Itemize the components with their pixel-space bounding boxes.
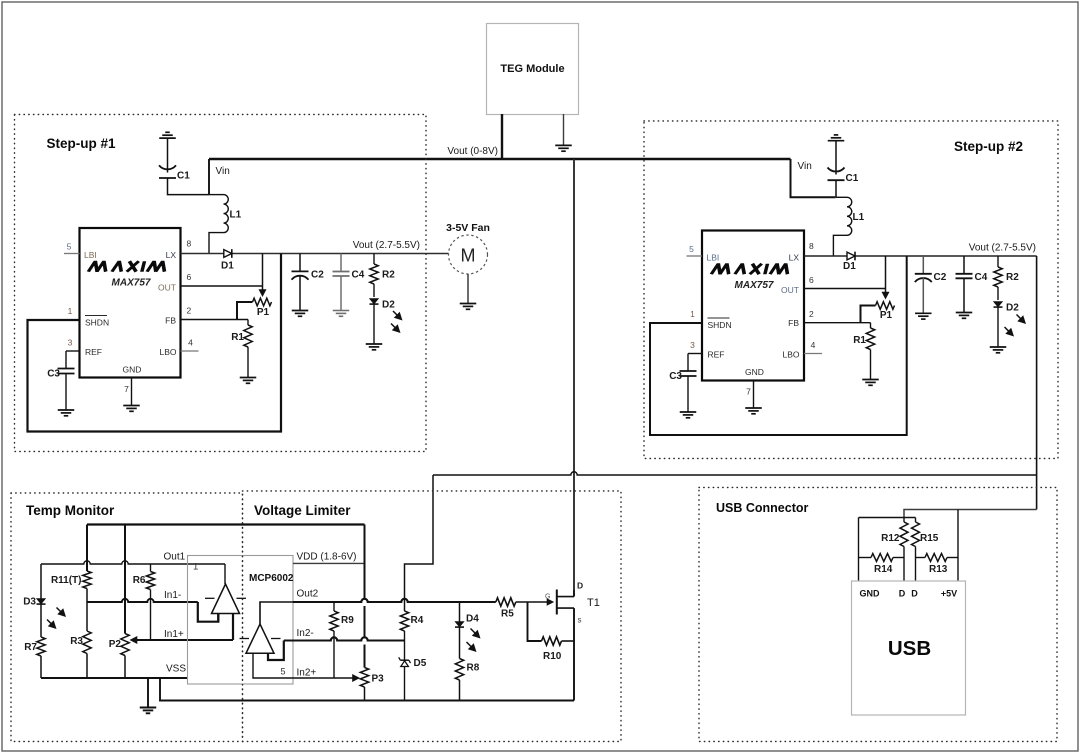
svg-text:FB: FB: [165, 316, 176, 326]
Temp Monitor dotted box: [11, 493, 243, 742]
ground TEG: [555, 145, 572, 151]
svg-text:USB: USB: [888, 637, 931, 660]
svg-text:D4: D4: [466, 614, 479, 625]
wire C1 to L1 junction (step-up #2): [835, 180, 837, 197]
svg-text:5: 5: [280, 667, 285, 677]
pin 4 LBO stub (step-up #2): [804, 340, 822, 354]
wire bus to Vin of step-up #2: [791, 159, 836, 197]
wire Out2 row: [293, 599, 496, 602]
wire Out1 row: [41, 561, 225, 564]
op-amp MCP6002 package box: [188, 556, 294, 685]
potentiometer P3: [360, 668, 384, 688]
svg-text:In2-: In2-: [297, 628, 314, 639]
svg-text:Step-up #1: Step-up #1: [47, 136, 117, 151]
svg-text:In2+: In2+: [297, 668, 317, 679]
svg-text:LBO: LBO: [782, 350, 799, 360]
svg-text:G: G: [545, 594, 550, 601]
svg-text:R6: R6: [133, 575, 146, 586]
wire D5 to bottom rail: [404, 667, 406, 701]
IC U2 MAX757 (step-up #2): [702, 231, 804, 381]
LED D4: [455, 602, 481, 652]
svg-text:R4: R4: [411, 615, 424, 626]
wire R4 bottom to D5: [404, 631, 406, 660]
svg-text:3-5V Fan: 3-5V Fan: [446, 222, 490, 234]
svg-text:M: M: [461, 246, 476, 266]
svg-text:2: 2: [809, 309, 814, 319]
wire Out1 to op-amp A apex: [224, 564, 226, 584]
LED D2 (step-up #2): [994, 302, 1027, 348]
ground R1 (step-up #2): [862, 380, 879, 386]
pin 7 GND stub (step-up #1): [124, 378, 131, 406]
svg-text:1: 1: [68, 306, 73, 316]
ground temp monitor: [140, 708, 157, 714]
wire +5V vertical: [957, 510, 959, 582]
op-amp B triangle: [240, 624, 281, 653]
svg-text:R2: R2: [1006, 272, 1019, 283]
pin 6 label and OUT wire (step-up #1): [181, 272, 263, 286]
wire USB top rail: [859, 517, 916, 519]
capacitor C1 (step-up #1): [159, 165, 190, 181]
transistor T1 MOSFET: [557, 581, 600, 625]
svg-text:LBO: LBO: [159, 347, 176, 357]
svg-text:LBI: LBI: [707, 252, 720, 262]
wire sense drop to R4: [405, 475, 434, 611]
svg-text:C3: C3: [47, 369, 60, 380]
inductor L1 (step-up #2): [847, 197, 865, 235]
ground C4 (step-up #1): [333, 311, 350, 317]
svg-text:1: 1: [690, 309, 695, 319]
wire R3 to bottom rail: [86, 654, 88, 679]
zener diode D5: [399, 657, 427, 669]
svg-text:6: 6: [187, 272, 192, 282]
wire T1 source down: [573, 608, 575, 700]
wire supply into USB network: [904, 510, 1037, 518]
svg-text:D2: D2: [382, 300, 395, 311]
svg-text:LX: LX: [789, 253, 800, 263]
resistor R13: [916, 554, 959, 576]
capacitor C4 (step-up #1): [333, 254, 365, 311]
resistor R15: [912, 518, 939, 547]
svg-text:+5V: +5V: [941, 589, 957, 599]
svg-text:C3: C3: [669, 371, 682, 382]
svg-text:LBI: LBI: [84, 250, 97, 260]
svg-text:R14: R14: [874, 564, 893, 575]
svg-text:D: D: [899, 589, 906, 599]
potentiometer P1 (step-up #2): [876, 302, 895, 321]
ground C3 (step-up #1): [58, 410, 75, 416]
svg-text:Vin: Vin: [216, 166, 230, 177]
resistor R1 (step-up #1): [231, 320, 252, 348]
svg-text:OUT: OUT: [781, 285, 799, 295]
svg-text:3: 3: [690, 340, 695, 350]
resistor R1 (step-up #2): [853, 323, 874, 350]
capacitor C4 (step-up #2): [956, 256, 988, 313]
svg-text:Out1: Out1: [164, 552, 186, 563]
svg-text:Vin: Vin: [798, 161, 812, 172]
wire R1 to ground (step-up #2): [870, 350, 872, 380]
svg-text:D1: D1: [843, 261, 856, 272]
resistor R3: [70, 631, 91, 654]
resistor R8: [455, 659, 479, 681]
capacitor C2 (step-up #2): [915, 256, 947, 313]
capacitor C3 (step-up #1): [47, 351, 74, 410]
svg-text:D5: D5: [414, 658, 427, 669]
svg-text:VDD (1.8-6V): VDD (1.8-6V): [297, 552, 357, 563]
svg-text:GND: GND: [860, 589, 881, 599]
svg-text:In1+: In1+: [164, 629, 184, 640]
TEG Module box: [487, 24, 579, 115]
wire P3 to bottom rail: [364, 687, 366, 701]
wire gate branch to R10: [528, 602, 542, 641]
wire LX row / Vout(2.7-5.5V) rail (step-up #1): [181, 253, 450, 255]
svg-text:T1: T1: [587, 597, 600, 609]
pin 2 label and FB wire (step-up #1): [181, 306, 249, 320]
svg-text:SHDN: SHDN: [85, 318, 109, 328]
svg-text:R5: R5: [501, 609, 514, 620]
ground C2 (step-up #1): [292, 311, 309, 317]
resistor R6: [133, 564, 155, 590]
wire VDD pin8 segment: [293, 562, 365, 564]
wire drain drop from bus to T1: [573, 159, 575, 597]
svg-text:Vout (2.7-5.5V): Vout (2.7-5.5V): [969, 243, 1036, 254]
potentiometer P2: [109, 634, 129, 656]
wire R6 to In1+ row: [150, 590, 152, 641]
wire TEG left lead: [501, 114, 503, 159]
pin 5 stub LBI (step-up #2): [687, 244, 703, 256]
svg-text:R2: R2: [382, 270, 395, 281]
svg-text:L1: L1: [853, 212, 865, 223]
svg-text:R1: R1: [231, 332, 244, 343]
wire D- line down: [903, 547, 905, 582]
wire junction to L1 top: [209, 194, 224, 196]
svg-text:5: 5: [67, 242, 72, 252]
svg-text:C4: C4: [352, 270, 365, 281]
svg-text:LX: LX: [166, 250, 177, 260]
wire LX row / Vout(2.7-5.5V) rail (step-up #2): [804, 255, 1037, 257]
IC U1 MAX757 (step-up #1): [80, 228, 181, 378]
svg-text:OUT: OUT: [158, 283, 176, 293]
capacitor C3 (step-up #2): [669, 354, 696, 413]
svg-text:GND: GND: [745, 367, 764, 377]
svg-text:P3: P3: [372, 674, 385, 685]
svg-text:Voltage Limiter: Voltage Limiter: [254, 503, 351, 518]
pin 5 stub LBI (step-up #1): [64, 242, 80, 254]
svg-text:D1: D1: [221, 261, 234, 272]
svg-text:P2: P2: [109, 639, 122, 650]
inductor L1 (step-up #1): [224, 195, 242, 233]
svg-text:4: 4: [188, 338, 193, 348]
svg-text:R9: R9: [341, 615, 354, 626]
resistor R11(T) thermistor: [51, 571, 91, 589]
pin 1 SHDN loop wire (step-up #2): [650, 256, 907, 435]
pin 3 REF wire (step-up #1): [66, 338, 80, 352]
wire P2 to bottom rail: [124, 656, 126, 679]
svg-text:R3: R3: [70, 636, 83, 647]
LED D2 (step-up #1): [370, 299, 403, 345]
capacitor C1 (step-up #2): [828, 168, 859, 185]
pin 2 label and FB wire (step-up #2): [804, 309, 871, 323]
LED D3: [23, 597, 66, 630]
svg-text:MCP6002: MCP6002: [249, 573, 294, 584]
wire L1 bottom to LX (step-up #2): [833, 235, 847, 256]
wire In2- row: [284, 637, 405, 640]
svg-text:D3: D3: [23, 597, 36, 608]
ground R1 (step-up #1): [240, 378, 257, 384]
ground IC pin7 (step-up #1): [123, 406, 140, 412]
svg-text:5: 5: [689, 244, 694, 254]
svg-text:R13: R13: [929, 564, 948, 575]
resistor R10: [542, 637, 575, 662]
svg-text:SHDN: SHDN: [708, 320, 732, 330]
wire D3 to R7: [40, 605, 42, 638]
svg-text:Vout (0-8V): Vout (0-8V): [447, 146, 498, 157]
svg-text:8: 8: [187, 239, 192, 249]
svg-text:C2: C2: [311, 270, 324, 281]
wire bottom rail temp monitor: [41, 677, 187, 679]
wire In1- row: [87, 599, 198, 602]
wire VDD top rail: [87, 523, 365, 525]
ground D2 (step-up #1): [366, 344, 383, 350]
wire In2+ row arrow into P3: [293, 674, 360, 682]
ground C4 (step-up #2): [956, 313, 973, 319]
wire R9 bottom to In2+ row: [333, 631, 335, 678]
USB socket box: [852, 581, 966, 715]
wire VDD drop vertical to P3: [364, 525, 366, 599]
wire In1+ row: [130, 636, 234, 644]
wire L1 bottom to LX: [209, 233, 224, 254]
svg-text:VSS: VSS: [166, 664, 186, 675]
resistor R2 (step-up #2): [994, 256, 1019, 300]
Voltage Limiter dotted box: [243, 491, 622, 742]
wire main bus Vout(0-8V): [209, 158, 791, 161]
svg-text:s: s: [578, 616, 582, 625]
svg-text:7: 7: [124, 384, 129, 394]
resistor R2 (step-up #1): [370, 254, 395, 298]
svg-text:REF: REF: [708, 350, 725, 360]
svg-text:4: 4: [811, 340, 816, 350]
svg-text:2: 2: [187, 306, 192, 316]
svg-text:TEG Module: TEG Module: [500, 63, 564, 75]
wire gate arrow into T1: [516, 598, 554, 606]
wire In1- feedback jog: [198, 602, 219, 622]
wire TEG right lead: [563, 114, 565, 145]
Step-up #2 dotted box: [644, 121, 1058, 459]
resistor R12: [881, 518, 908, 547]
resistor R9: [330, 602, 354, 631]
svg-text:C1: C1: [177, 171, 190, 182]
motor M 3-5V fan: [449, 235, 488, 274]
resistor R14: [859, 554, 905, 576]
wire Vin vertical (step-up #1): [208, 159, 210, 195]
svg-text:R10: R10: [543, 651, 562, 662]
svg-text:P1: P1: [880, 310, 893, 321]
wire In1+ up to op-amp: [232, 614, 234, 641]
ground C3 (step-up #2): [680, 412, 697, 418]
svg-text:Vout (2.7-5.5V): Vout (2.7-5.5V): [353, 240, 420, 251]
svg-text:6: 6: [809, 275, 814, 285]
ground above C1 (step-up #2): [828, 135, 845, 175]
wire P1 wiper arrow (step-up #1): [259, 254, 267, 298]
wire R8 to bottom rail: [459, 680, 461, 701]
svg-text:R7: R7: [24, 642, 37, 653]
svg-text:R1: R1: [853, 335, 866, 346]
svg-text:REF: REF: [85, 347, 102, 357]
svg-text:P1: P1: [257, 307, 270, 318]
pin 7 GND stub (step-up #2): [746, 381, 753, 409]
wire P1 left to FB (step-up #2): [861, 306, 876, 323]
svg-text:R15: R15: [920, 533, 939, 544]
pin 6 label and OUT wire (step-up #2): [804, 275, 886, 289]
Step-up #1 dotted box: [15, 115, 427, 452]
pin 1 SHDN loop wire (step-up #1): [28, 254, 282, 432]
svg-text:MAX757: MAX757: [112, 278, 151, 289]
ground above C1 (step-up #1): [159, 132, 176, 172]
wire D4 to R8: [459, 628, 461, 659]
resistor R4: [400, 611, 423, 631]
wire R7 to bottom rail: [40, 656, 42, 678]
wire limiter sense from drain rail: [433, 472, 1037, 475]
wire GND-side vertical: [858, 518, 860, 582]
wire Vout#2 down to USB supply: [1036, 256, 1038, 510]
wire R11 branch vertical: [86, 525, 88, 572]
svg-text:Out2: Out2: [297, 589, 319, 600]
wire op-amp B non-inverting to pin5 row: [253, 653, 293, 678]
svg-text:R11(T): R11(T): [51, 575, 82, 586]
potentiometer P1 (step-up #1): [253, 298, 272, 318]
ground fan: [460, 304, 477, 310]
svg-text:R8: R8: [467, 663, 480, 674]
svg-text:Step-up #2: Step-up #2: [954, 139, 1023, 154]
svg-text:GND: GND: [123, 365, 142, 375]
svg-text:R12: R12: [881, 533, 900, 544]
svg-text:Temp Monitor: Temp Monitor: [26, 503, 115, 518]
wire R11 to R3: [86, 589, 88, 632]
capacitor C2 (step-up #1): [292, 254, 325, 311]
wire P1 left to FB (step-up #1): [237, 302, 253, 320]
svg-text:3: 3: [68, 338, 73, 348]
resistor R7: [24, 637, 45, 656]
wire VSS ground stub: [147, 678, 149, 708]
diode D1 (step-up #2): [843, 252, 856, 272]
ground D2 (step-up #2): [990, 347, 1007, 353]
wire left branch down to D3: [40, 564, 42, 599]
svg-text:C2: C2: [934, 272, 947, 283]
wire VSS jog to limiter bottom rail: [160, 678, 574, 701]
USB Connector dotted box: [699, 488, 1057, 742]
svg-text:L1: L1: [230, 210, 242, 221]
wire R1 to ground: [247, 347, 249, 378]
svg-text:FB: FB: [788, 318, 799, 328]
pin 3 REF wire (step-up #2): [688, 340, 702, 354]
svg-text:D: D: [911, 589, 918, 599]
diode D1 (step-up #1): [221, 249, 234, 271]
wire op-amp A inverting input jog: [217, 614, 219, 622]
svg-text:In1-: In1-: [164, 590, 181, 601]
ground C2 (step-up #2): [915, 313, 932, 319]
wire D+ line down: [915, 547, 917, 582]
svg-text:MAX757: MAX757: [735, 280, 774, 291]
wire op-amp B output to Out2: [260, 602, 293, 624]
pin 4 LBO stub (step-up #1): [181, 338, 199, 352]
svg-text:8: 8: [809, 241, 814, 251]
op-amp A triangle: [205, 584, 246, 614]
ground IC pin7 (step-up #2): [745, 408, 762, 414]
wire C1 to Vin junction: [168, 178, 210, 195]
wire op-amp B inverting jog from In2-: [268, 641, 284, 661]
svg-text:1: 1: [193, 562, 198, 573]
wire junction to L1 top (step-up #2): [836, 196, 847, 198]
svg-text:C1: C1: [846, 173, 859, 184]
svg-text:7: 7: [746, 387, 751, 397]
wire P2 branch vertical: [124, 525, 126, 634]
svg-text:USB Connector: USB Connector: [716, 501, 809, 515]
resistor R5: [496, 598, 516, 620]
wire fan to ground: [467, 274, 469, 304]
wire P1 wiper arrow (step-up #2): [882, 256, 890, 300]
svg-text:D: D: [577, 581, 583, 591]
svg-text:C4: C4: [975, 272, 988, 283]
svg-text:D2: D2: [1006, 303, 1019, 314]
